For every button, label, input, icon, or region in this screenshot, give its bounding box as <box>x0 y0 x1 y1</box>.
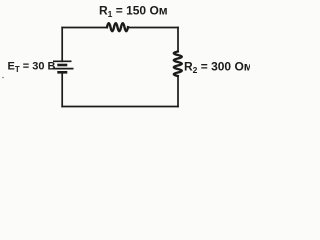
wire left lower <box>61 72 63 106</box>
resistor R1 <box>107 23 128 31</box>
wire right upper <box>177 28 179 52</box>
label R2 = 300 Ом <box>184 60 253 76</box>
wire bottom <box>62 106 178 108</box>
wire top-left segment <box>62 27 107 29</box>
wire left upper <box>61 28 63 62</box>
wire right lower <box>177 76 179 107</box>
wire top-right segment <box>128 27 178 29</box>
label R1 = 150 Ом <box>99 4 168 20</box>
battery ET <box>53 61 74 72</box>
speck <box>2 77 4 79</box>
resistor R2 <box>174 52 182 77</box>
svg-text:ET = 30 В: ET = 30 В <box>8 61 56 75</box>
label ET = 30 В <box>8 61 56 75</box>
